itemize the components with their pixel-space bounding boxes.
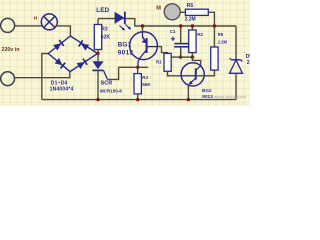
LED emission arrows (120, 25, 131, 31)
node SCR cathode rail junction (96, 98, 99, 101)
svg-text:2.2M: 2.2M (185, 16, 196, 22)
svg-text:R3: R3 (101, 27, 108, 33)
resistor R1 (164, 53, 171, 71)
node bridge right junction (96, 52, 99, 55)
svg-text:62K: 62K (101, 35, 111, 41)
wire R4 top (137, 67, 139, 73)
wire R3 top to LED rail (97, 19, 99, 25)
wire R2 top to rail (191, 26, 193, 30)
wire R1 side to C1 node (171, 56, 181, 58)
wire zener bottom to rail (235, 73, 237, 99)
transistor BG1 9012 (130, 32, 158, 68)
svg-text:9012: 9012 (118, 50, 134, 57)
motor M (164, 4, 180, 20)
wire BG1 emitter to top rail (142, 26, 144, 32)
resistor R6 (185, 9, 208, 15)
svg-text:MCR100-8: MCR100-8 (100, 88, 122, 93)
svg-text:DW: DW (246, 54, 250, 60)
wire R3 bottom to bridge right (97, 50, 99, 54)
svg-text:2.2M: 2.2M (218, 40, 228, 45)
wire C1 bottom to node (180, 47, 182, 57)
wire lamp to bridge top (56, 26, 70, 36)
wire node to BG2 collector (192, 57, 200, 66)
svg-text:C1: C1 (170, 29, 176, 34)
svg-text:BG1: BG1 (118, 42, 132, 49)
node BG2 emitter rail junction (187, 98, 190, 101)
svg-text:56K: 56K (142, 82, 151, 87)
wire bottom terminal to bridge bottom (15, 72, 70, 78)
svg-text:1N4004*4: 1N4004*4 (50, 86, 74, 92)
SCR gate lead (104, 71, 108, 80)
resistor R2 (189, 30, 196, 53)
diode D3 lower-left (54, 58, 65, 69)
diode D4 lower-right (77, 59, 88, 69)
wire bottom rail (42, 99, 236, 101)
zener DW (230, 58, 243, 73)
wire SCR gate net (107, 67, 148, 79)
node R2 rail junction (191, 24, 194, 27)
svg-text:BG2: BG2 (202, 88, 212, 93)
bridge rectifier D1-D4 frame (48, 36, 97, 72)
resistor R4 (134, 74, 141, 94)
wire BG2 base to R5 (196, 70, 215, 76)
svg-text:LED: LED (96, 7, 109, 14)
svg-text:R5: R5 (218, 32, 224, 37)
wire R1 bottom to BG2 base (168, 71, 182, 76)
resistor R3 (94, 25, 101, 50)
resistor R5 (211, 47, 218, 70)
svg-text:R2: R2 (197, 32, 203, 37)
wire C1 node to R2 node (181, 56, 193, 58)
SCR Q1 (92, 61, 103, 69)
wire LED rail (98, 19, 236, 26)
wire R2 bottom (191, 53, 193, 58)
terminal input bottom (1, 72, 15, 86)
svg-text:www.dzsc.com: www.dzsc.com (213, 95, 247, 100)
wire right rail upper (235, 26, 237, 60)
svg-text:R4: R4 (142, 75, 148, 80)
C1 polarity plus (171, 37, 175, 41)
transistor BG2 9013 (181, 63, 204, 86)
lamp H (41, 14, 57, 30)
wire bridge right to SCR anode (97, 54, 99, 62)
wire R4 bottom (137, 94, 139, 100)
terminal input top (1, 18, 15, 32)
svg-text:H: H (34, 16, 38, 22)
wire R6 right to R5 top (208, 12, 214, 47)
svg-text:R1: R1 (156, 60, 162, 65)
wire BG2 emitter to rail (187, 85, 189, 100)
capacitor C1 (174, 44, 188, 47)
svg-text:2C: 2C (247, 60, 250, 66)
node R2 bottom junction (191, 55, 194, 58)
node gate/R4/collector junction (136, 66, 139, 69)
svg-text:SCR: SCR (101, 80, 113, 86)
wire SCR cathode to bottom rail (97, 70, 99, 99)
svg-text:220v in: 220v in (2, 47, 20, 53)
diode D2 upper-right (79, 40, 90, 50)
diode D1 upper-left (53, 40, 64, 51)
node C1 bottom junction (179, 55, 182, 58)
svg-text:9013: 9013 (202, 94, 213, 99)
node C1 rail junction (179, 24, 182, 27)
node R6/R5 rail junction (213, 24, 216, 27)
node BG1 emitter rail junction (141, 24, 144, 27)
wire bridge left to bottom rail (42, 54, 48, 100)
svg-text:R6: R6 (187, 3, 194, 9)
wire motor to R6 (180, 11, 185, 13)
wire terminal to lamp (15, 25, 43, 27)
node R4 rail junction (136, 98, 139, 101)
wire C1 top to rail (180, 26, 182, 44)
diode LED (115, 12, 125, 24)
wire BG1 base to R1 top (157, 47, 167, 54)
svg-text:M: M (156, 5, 161, 11)
